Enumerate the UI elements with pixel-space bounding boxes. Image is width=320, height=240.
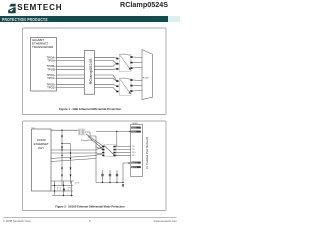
svg-text:PHY: PHY	[38, 146, 44, 150]
svg-text:RXCT+: RXCT+	[132, 162, 138, 164]
svg-text:TRANSCEIVER: TRANSCEIVER	[32, 45, 54, 49]
svg-text:RJ 45: RJ 45	[143, 77, 149, 79]
svg-text:TPOD-: TPOD-	[47, 85, 56, 89]
svg-text:4.7nF: 4.7nF	[75, 183, 81, 185]
svg-text:TPOB-: TPOB-	[47, 67, 56, 71]
svg-text:TPOA-: TPOA-	[47, 58, 56, 62]
svg-text:To Twisted Pair Network: To Twisted Pair Network	[145, 136, 149, 169]
svg-text:RClamp0524S: RClamp0524S	[88, 58, 93, 84]
svg-text:Figure 1 - GbE Ethernet Differ: Figure 1 - GbE Ethernet Differential Pro…	[59, 107, 122, 111]
svg-text:RClamp0524S: RClamp0524S	[81, 140, 93, 142]
svg-text:RX+: RX+	[132, 152, 137, 154]
svg-text:TXCT+: TXCT+	[132, 127, 137, 129]
svg-text:TPOC-: TPOC-	[47, 76, 56, 80]
svg-text:TXCT-: TXCT-	[132, 131, 137, 133]
svg-text:Figure 2 - 10/100 Ethernet Dif: Figure 2 - 10/100 Ethernet Differential …	[55, 204, 125, 208]
svg-text:TX-: TX-	[132, 149, 135, 151]
svg-text:RXCT-: RXCT-	[132, 167, 137, 169]
svg-text:RX-: RX-	[132, 155, 136, 157]
svg-text:TX+: TX+	[132, 146, 136, 148]
svg-text:Vcc: Vcc	[32, 128, 35, 130]
